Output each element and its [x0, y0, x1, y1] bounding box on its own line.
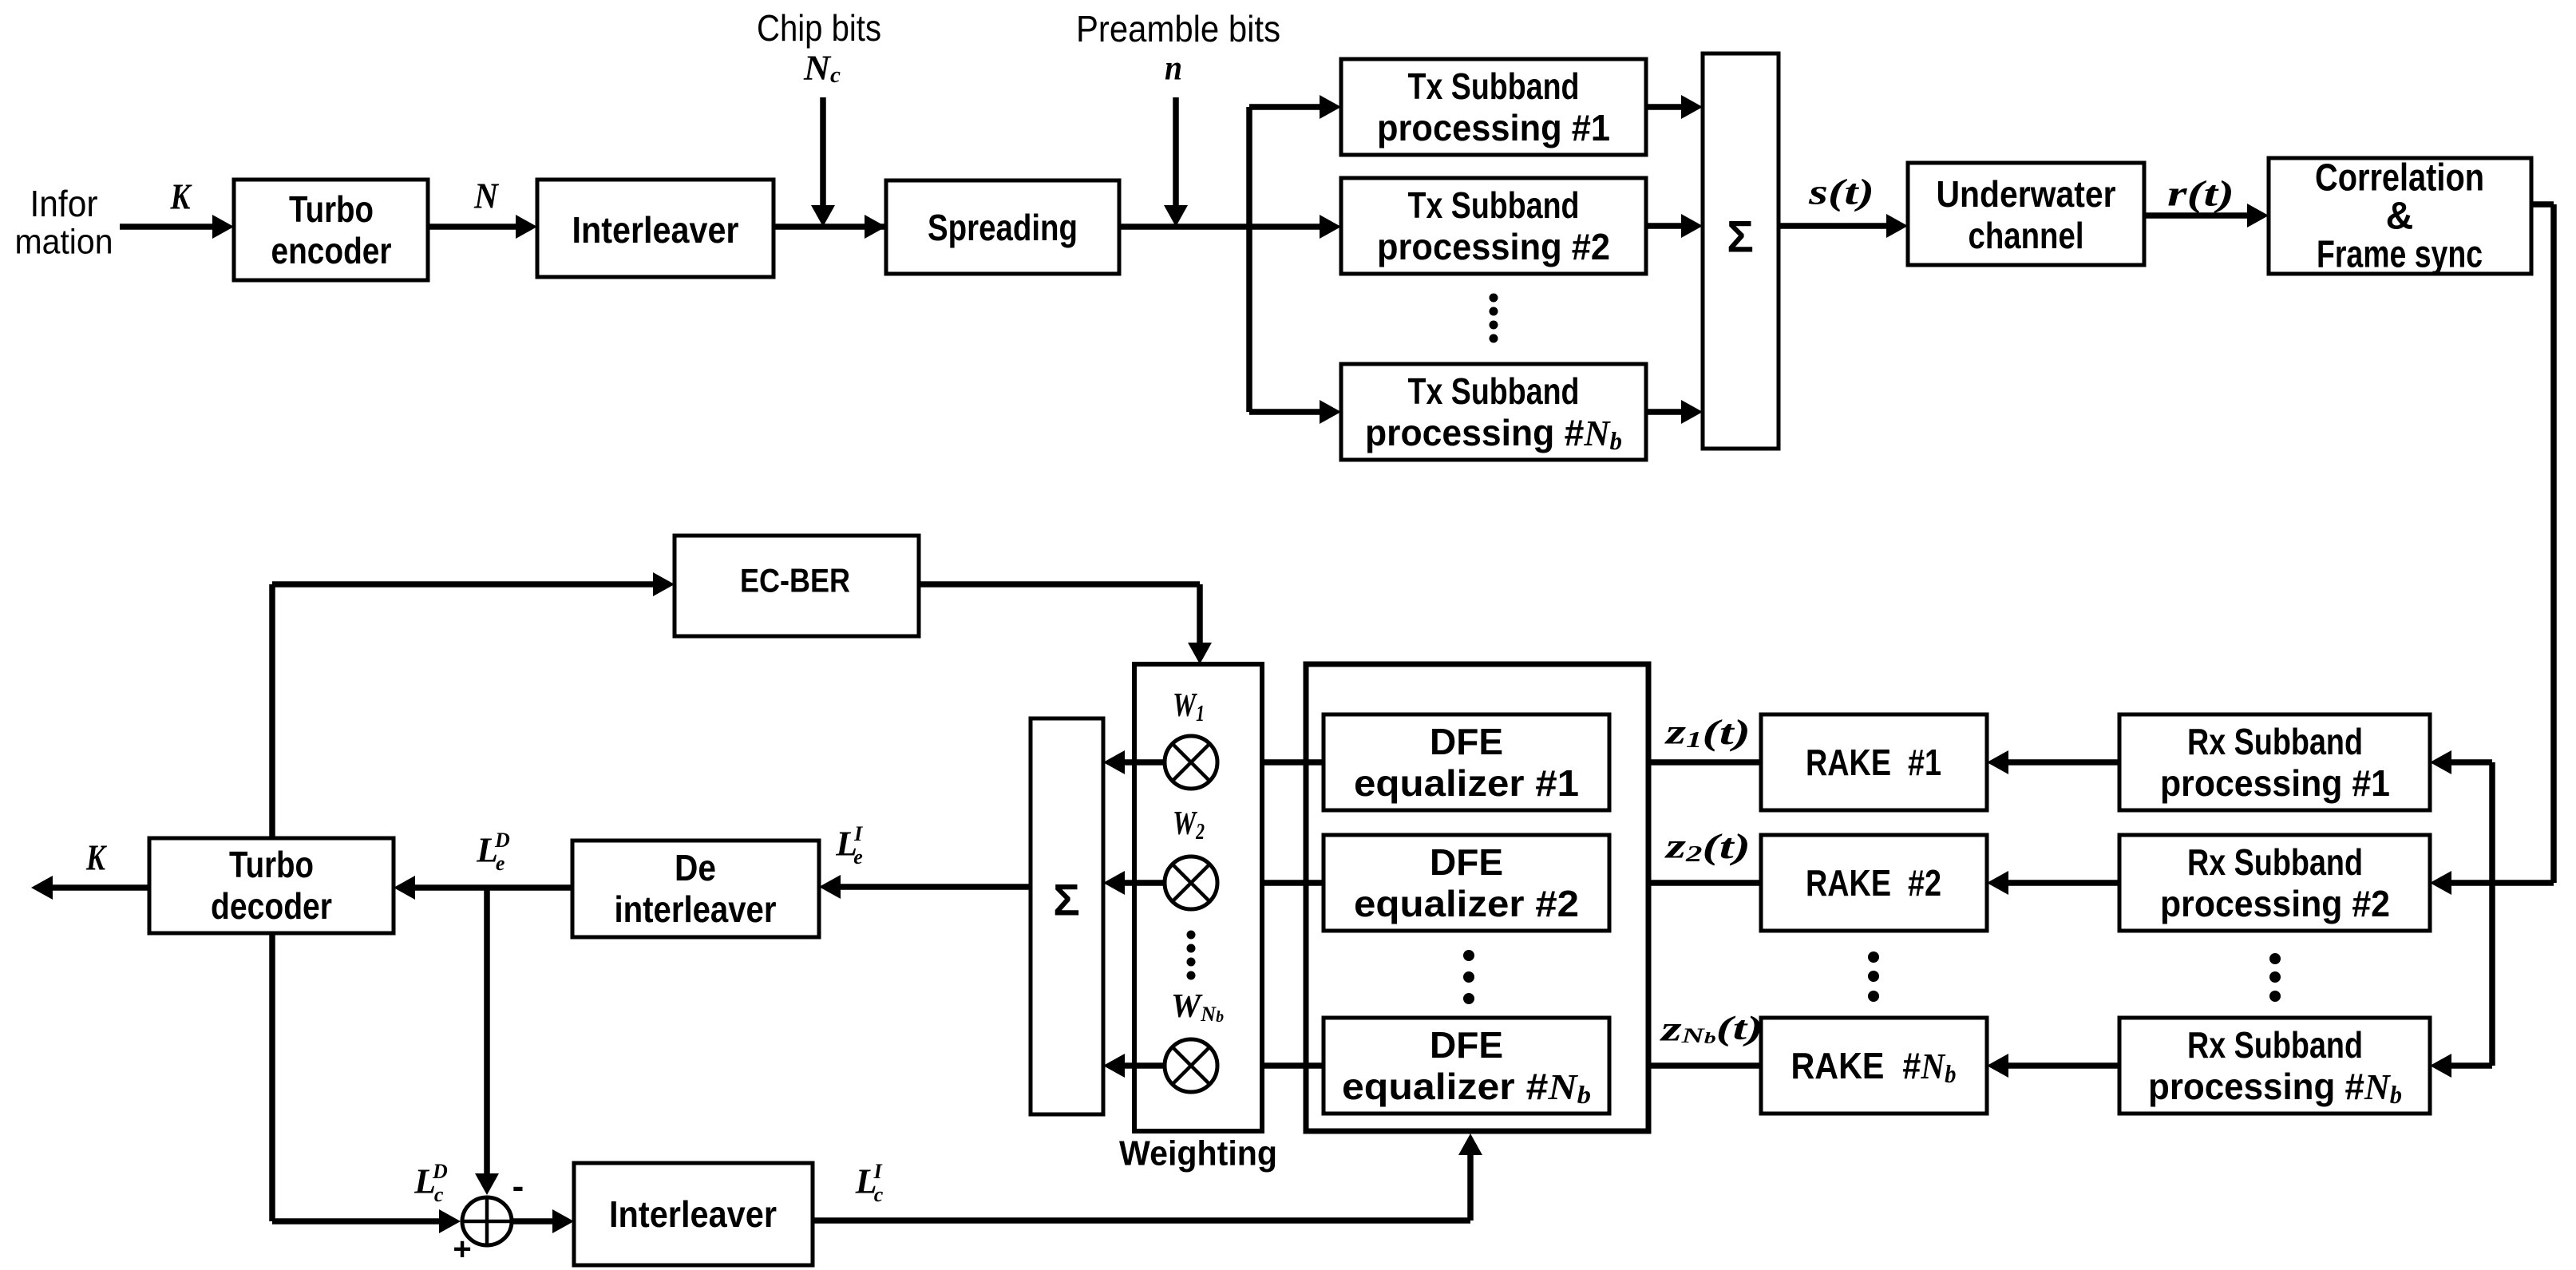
- svg-text:N: N: [473, 176, 499, 216]
- svg-text:LDc: LDc: [414, 1160, 448, 1206]
- svg-text:DFE: DFE: [1430, 721, 1503, 762]
- svg-text:Spreading: Spreading: [928, 207, 1078, 248]
- svg-text:encoder: encoder: [271, 230, 392, 271]
- svg-text:Tx Subband: Tx Subband: [1408, 370, 1580, 412]
- svg-text:De: De: [675, 847, 716, 888]
- svg-text:interleaver: interleaver: [615, 888, 777, 930]
- svg-text:LIe: LIe: [835, 822, 863, 868]
- svg-text:Σ: Σ: [1053, 875, 1080, 925]
- svg-text:K: K: [170, 176, 193, 217]
- svg-text:Correlation: Correlation: [2315, 157, 2484, 200]
- svg-text:Σ: Σ: [1727, 212, 1754, 262]
- svg-text:processing #1: processing #1: [1377, 107, 1610, 148]
- svg-text:equalizer #1: equalizer #1: [1354, 762, 1579, 804]
- svg-text:Rx Subband: Rx Subband: [2187, 1024, 2363, 1066]
- svg-text:Rx Subband: Rx Subband: [2187, 721, 2363, 762]
- svg-text:equalizer #2: equalizer #2: [1354, 883, 1579, 924]
- svg-text:Tx Subband: Tx Subband: [1408, 184, 1580, 226]
- svg-text:EC-BER: EC-BER: [740, 562, 850, 599]
- svg-text:z2(t): z2(t): [1664, 827, 1751, 867]
- svg-text:r(t): r(t): [2167, 173, 2234, 214]
- svg-text:Preamble bits: Preamble bits: [1076, 8, 1280, 49]
- svg-text:Interleaver: Interleaver: [572, 209, 739, 251]
- svg-text:processing #2: processing #2: [1377, 226, 1610, 267]
- svg-text:RAKE #Nb: RAKE #Nb: [1791, 1045, 1957, 1088]
- svg-text:DFE: DFE: [1430, 1024, 1503, 1066]
- svg-text:RAKE #1: RAKE #1: [1806, 742, 1941, 783]
- svg-text:Chip bits: Chip bits: [757, 7, 881, 49]
- svg-text:processing #2: processing #2: [2160, 883, 2390, 924]
- svg-text:Infor: Infor: [30, 183, 98, 224]
- svg-text:channel: channel: [1969, 215, 2084, 256]
- svg-text:decoder: decoder: [211, 885, 332, 927]
- svg-text:LIc: LIc: [855, 1160, 884, 1206]
- svg-text:Tx Subband: Tx Subband: [1408, 65, 1580, 107]
- svg-text:equalizer #Nb: equalizer #Nb: [1342, 1066, 1591, 1109]
- svg-text:Turbo: Turbo: [229, 844, 314, 885]
- svg-text:Frame sync: Frame sync: [2317, 234, 2483, 276]
- svg-text:Underwater: Underwater: [1937, 173, 2116, 215]
- svg-text:Interleaver: Interleaver: [609, 1193, 777, 1235]
- svg-text:Turbo: Turbo: [289, 188, 374, 230]
- svg-text:s(t): s(t): [1808, 172, 1874, 212]
- svg-text:RAKE #2: RAKE #2: [1806, 862, 1941, 904]
- svg-text:Rx Subband: Rx Subband: [2187, 841, 2363, 883]
- svg-text:processing #Nb: processing #Nb: [2148, 1066, 2402, 1109]
- svg-text:K: K: [85, 837, 107, 878]
- svg-text:z1(t): z1(t): [1664, 713, 1751, 753]
- svg-text:&: &: [2386, 196, 2414, 238]
- svg-text:n: n: [1165, 49, 1182, 88]
- svg-text:Weighting: Weighting: [1119, 1134, 1277, 1173]
- svg-text:-: -: [512, 1167, 524, 1206]
- svg-text:DFE: DFE: [1430, 841, 1503, 883]
- svg-text:processing #Nb: processing #Nb: [1365, 412, 1622, 455]
- svg-text:mation: mation: [15, 223, 113, 262]
- svg-text:processing #1: processing #1: [2160, 762, 2390, 804]
- svg-text:+: +: [453, 1232, 471, 1267]
